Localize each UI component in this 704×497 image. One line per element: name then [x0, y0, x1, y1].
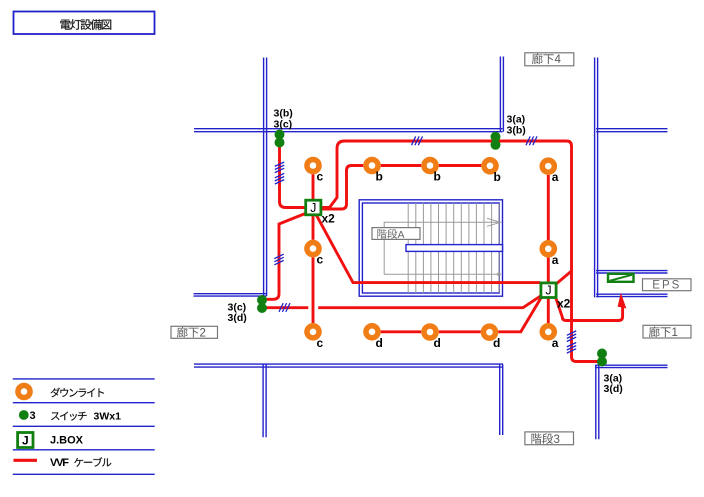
svg-text:c: c — [317, 170, 324, 184]
switch 3(a)/3(b) top-right — [491, 132, 501, 142]
svg-text:VVF: VVF — [50, 457, 69, 469]
wall: bottom horizontal right stub — [595, 365, 667, 367]
svg-text:3Wx1: 3Wx1 — [94, 411, 122, 423]
legend downlight symbol — [15, 383, 33, 401]
svg-text:d: d — [434, 336, 441, 350]
stairwell outline — [359, 200, 502, 296]
switch 3(c)/3(d) mid-left — [257, 295, 267, 305]
wire: a column through J2 — [547, 168, 550, 330]
svg-text:2: 2 — [200, 328, 206, 340]
wall: EPS niche top — [596, 271, 667, 273]
wire: d-row into J2 — [372, 297, 542, 332]
legend text ダウンライト — [51, 388, 60, 398]
svg-text:a: a — [552, 170, 559, 184]
svg-text:3(d): 3(d) — [604, 383, 623, 395]
stair walk line with arrow — [497, 272, 501, 276]
wire: c column top (c light to J1) — [312, 170, 315, 202]
wire: switch 3cd to J2 (with crossing gap) — [264, 296, 541, 308]
wire: J1 up to switch 3ab trunk and down to switch 3ad — [319, 141, 599, 362]
stair landing bar — [406, 245, 503, 252]
cable tick marks on right trunk (upper) — [567, 331, 576, 342]
cable tick marks on trunk wire near x=531 — [526, 136, 537, 145]
svg-text:d: d — [376, 336, 383, 350]
arrow head to EPS — [618, 293, 627, 309]
cable tick marks on switch 3bc drop (upper) — [275, 162, 284, 173]
wall: bottom-left vertical — [263, 364, 266, 437]
svg-text:J: J — [545, 284, 551, 298]
wire: J1 to switch 3cd — [264, 212, 309, 299]
svg-text:b: b — [494, 170, 501, 184]
room label 廊下2 — [171, 326, 218, 338]
panel board symbol in EPS — [608, 274, 634, 282]
wall: mid-left horizontal — [194, 294, 267, 296]
downlight b — [363, 157, 381, 175]
downlight a — [540, 323, 558, 341]
cable tick marks on trunk wire near x=417 — [412, 136, 423, 145]
svg-text:3: 3 — [554, 434, 560, 446]
J.BOX J2 — [541, 283, 556, 298]
downlight c — [304, 323, 322, 341]
wall: top corridor horizontal left — [194, 129, 503, 132]
downlight d — [363, 323, 381, 341]
svg-text:J: J — [310, 201, 316, 215]
title box 電灯設備図 — [14, 12, 155, 35]
svg-text:a: a — [552, 253, 559, 267]
svg-text:4: 4 — [555, 54, 562, 66]
wall: top corridor horizontal right stub — [596, 129, 667, 132]
stair treads — [408, 203, 499, 293]
legend separator lines — [13, 379, 155, 474]
legend VVF cable symbol — [14, 459, 38, 462]
svg-text:3(b): 3(b) — [507, 125, 526, 137]
wall: bottom horizontal main — [194, 364, 503, 367]
svg-text:J.BOX: J.BOX — [50, 434, 84, 446]
svg-text:EPS: EPS — [652, 280, 681, 292]
svg-text:x2: x2 — [557, 297, 571, 311]
svg-text:x2: x2 — [322, 212, 336, 226]
wall: EPS niche bottom — [596, 294, 667, 296]
svg-text:b: b — [376, 170, 383, 184]
wire: J1 diagonal to long run into J2 — [316, 214, 541, 283]
svg-text:3(c): 3(c) — [274, 119, 293, 131]
room label 階段3 — [525, 432, 574, 445]
wire: J2 to trunk — [556, 271, 572, 285]
svg-text:c: c — [317, 336, 324, 350]
wall: bottom-middle vertical — [500, 364, 503, 435]
wire: switch 3bc down to J1 — [280, 144, 307, 208]
downlight a — [540, 240, 558, 258]
svg-text:1: 1 — [672, 327, 678, 339]
downlight c — [304, 240, 322, 258]
legend switch symbol — [19, 410, 29, 420]
wall: right vertical upper — [595, 58, 598, 298]
switch 3(a)/3(d) bottom-right — [597, 349, 607, 359]
svg-text:3(d): 3(d) — [228, 312, 247, 324]
cable tick marks on switch 3cd wire — [279, 303, 290, 312]
wire: b-row downlights — [372, 164, 490, 167]
svg-text:J: J — [22, 434, 29, 448]
wire: c column (J1 down through c lights) — [312, 213, 315, 330]
room label 廊下4 — [525, 53, 574, 66]
switch 3(b)/3(c) top-left — [275, 130, 285, 140]
svg-text:b: b — [434, 170, 441, 184]
cable tick marks on switch 3bc drop (lower) — [275, 173, 284, 184]
wire: J2 to EPS panel feed — [555, 296, 623, 321]
legend text スイッチ 3Wx1 — [51, 412, 59, 420]
room label EPS — [643, 279, 692, 291]
svg-text:d: d — [493, 336, 500, 350]
wall: bottom-right vertical — [596, 365, 599, 439]
downlight b — [481, 157, 499, 175]
downlight d — [421, 323, 439, 341]
svg-text:a: a — [552, 336, 559, 350]
wall: left vertical — [264, 58, 267, 297]
downlight b — [421, 157, 439, 175]
downlight c — [304, 157, 322, 175]
wall: upper middle vertical — [500, 57, 503, 132]
room label 廊下1 — [643, 325, 691, 338]
svg-text:A: A — [398, 229, 405, 241]
wire: J1 to downlight b row — [318, 166, 365, 210]
svg-text:c: c — [317, 253, 324, 267]
downlight d — [481, 323, 499, 341]
cable tick marks on J1-switch 3cd wire — [274, 254, 283, 265]
downlight a — [540, 157, 558, 175]
room label 階段A (stair) — [372, 228, 420, 240]
J.BOX J1 — [306, 200, 321, 215]
legend J.BOX symbol — [18, 433, 33, 448]
cable tick marks on right trunk (lower) — [567, 343, 576, 354]
svg-text:3: 3 — [30, 410, 36, 422]
